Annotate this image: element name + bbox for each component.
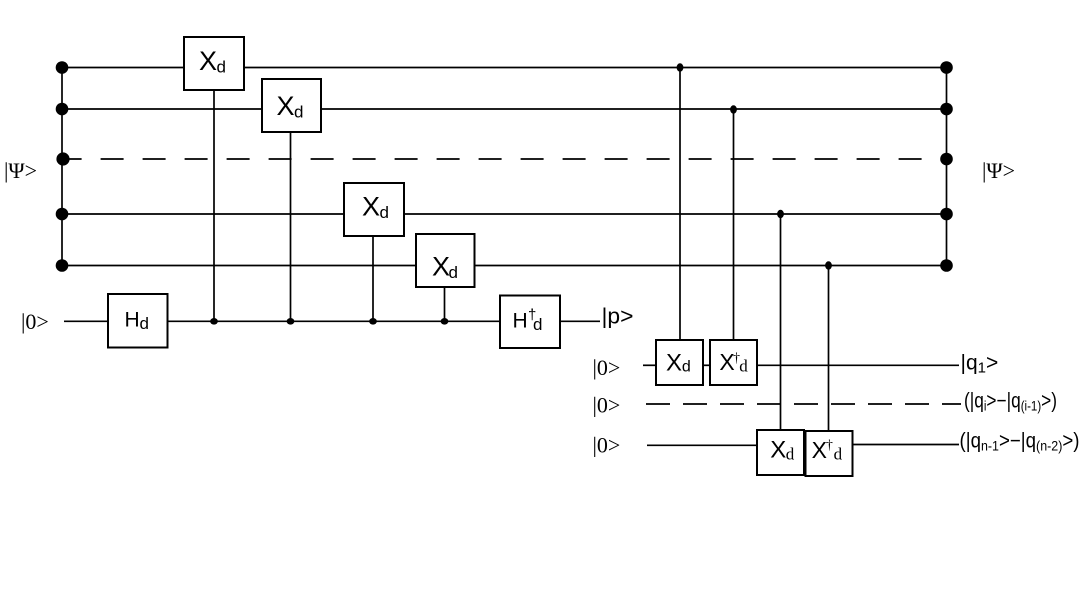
gate X_d q1 (656, 340, 703, 385)
svg-text:H: H (513, 310, 528, 333)
label |Psi> right (982, 158, 1015, 183)
svg-text:d: d (380, 203, 389, 222)
node dot left line 2 (56, 103, 69, 116)
wire qubit line 2 (62, 108, 947, 110)
label |0> qi row (593, 392, 621, 417)
svg-text:|Ψ>: |Ψ> (4, 158, 37, 183)
node dot right line 2 (940, 103, 953, 116)
wire X†_d to label qn-1 (853, 444, 960, 446)
node dot left line 1 (56, 61, 69, 74)
wire control vertical V1 from line1 to X_d q1 (679, 68, 681, 341)
wire qubit line 3 (dashed) (59, 158, 947, 160)
node control dot c3 (369, 318, 377, 325)
svg-text:d: d (682, 358, 691, 375)
svg-text:|0>: |0> (593, 432, 621, 457)
node dot left line 4 (56, 208, 69, 221)
node dot right line 5 (940, 259, 953, 272)
wire control vertical from gate X_d B4 to |0> line (444, 287, 446, 321)
svg-text:d: d (786, 444, 795, 463)
svg-text:X: X (812, 437, 827, 463)
svg-text:d: d (739, 356, 748, 375)
wire X†_d to |q1> (757, 364, 959, 366)
svg-text:X: X (666, 349, 682, 376)
label |0> qn-1 row (593, 432, 621, 457)
svg-text:|0>: |0> (593, 392, 621, 417)
node control dot on line 4 (777, 210, 784, 218)
wire |0> to H_d (64, 320, 108, 322)
label |q1> (961, 352, 999, 377)
node dot left line 5 (56, 259, 69, 272)
svg-text:X: X (362, 192, 380, 222)
svg-text:|Ψ>: |Ψ> (982, 158, 1015, 183)
wire control vertical V2 from line2 to X†_d q1 (733, 109, 735, 340)
gate X_d qn-1 (757, 430, 804, 475)
wire H_d to H†_d (168, 320, 501, 322)
svg-text:X: X (770, 436, 786, 463)
wire control vertical from gate X_d B3 to |0> line (372, 236, 374, 321)
wire control vertical from gate X_d B2 to |0> line (290, 132, 292, 321)
svg-text:d: d (533, 315, 542, 334)
gate X_d B4 on line 5 (416, 234, 475, 287)
wire right vertical bus (946, 68, 948, 266)
label |Psi> left (4, 158, 37, 183)
label |p> (602, 304, 634, 329)
svg-text:|0>: |0> (21, 309, 49, 334)
node dot left line 3 (56, 152, 69, 165)
gate X†_d q1 (710, 340, 757, 385)
svg-text:|0>: |0> (593, 355, 621, 380)
node control dot c1 (210, 318, 218, 325)
gate X_d B2 on line 2 (262, 79, 321, 132)
svg-text:†: † (826, 438, 833, 453)
svg-text:(|qn-1>−|q(n-2)>): (|qn-1>−|q(n-2)>) (960, 430, 1080, 454)
label (|qn-1>-|q(n-2)>) (960, 430, 1080, 454)
svg-text:H: H (125, 309, 140, 332)
label |0> q1 row (593, 355, 621, 380)
wire control vertical from gate X_d B1 to |0> line (213, 90, 215, 321)
wire control vertical V3 from line4 to X_d q(n-1) (780, 214, 782, 430)
svg-text:d: d (834, 444, 843, 463)
svg-text:X: X (199, 46, 217, 76)
node control dot on line 5 (825, 261, 832, 269)
svg-text:d: d (217, 58, 226, 77)
svg-text:|p>: |p> (602, 304, 634, 329)
node dot right line 3 (940, 153, 953, 166)
svg-text:X: X (276, 91, 294, 121)
label (|qi>-|q(i-1)>) (964, 390, 1057, 414)
svg-text:d: d (449, 263, 458, 282)
wire dashed qi row (646, 403, 961, 405)
gate X_d B1 on line 1 (184, 37, 244, 90)
wire between X_d and X†_d q1 (703, 364, 710, 366)
node control dot on line 1 (677, 63, 684, 71)
svg-text:(|qi>−|q(i-1)>): (|qi>−|q(i-1)>) (964, 390, 1057, 414)
svg-text:d: d (294, 103, 303, 122)
gate H†_d U2 (500, 296, 560, 349)
node control dot on line 2 (730, 105, 737, 113)
wire qubit line 4 (62, 213, 947, 215)
svg-text:X: X (432, 252, 450, 282)
wire qubit line 1 (62, 67, 947, 69)
wire |0> to X_d qn-1 (647, 444, 757, 446)
gate X†_d qn-1 (806, 431, 853, 476)
wire left vertical bus (61, 68, 63, 266)
wire qubit line 5 (62, 265, 947, 267)
wire |0> to X_d q1 (643, 364, 656, 366)
node control dot c2 (287, 318, 295, 325)
node dot right line 1 (940, 61, 953, 74)
wire H†_d to |p> (560, 320, 600, 322)
wire control vertical V4 from line5 to X†_d q(n-1) (828, 266, 830, 431)
gate X_d B3 on line 4 (344, 183, 404, 236)
label |0> ancilla p (21, 309, 49, 334)
node dot right line 4 (940, 208, 953, 221)
svg-text:d: d (140, 314, 149, 333)
node control dot c4 (441, 318, 449, 325)
gate H_d U1 (108, 294, 168, 348)
